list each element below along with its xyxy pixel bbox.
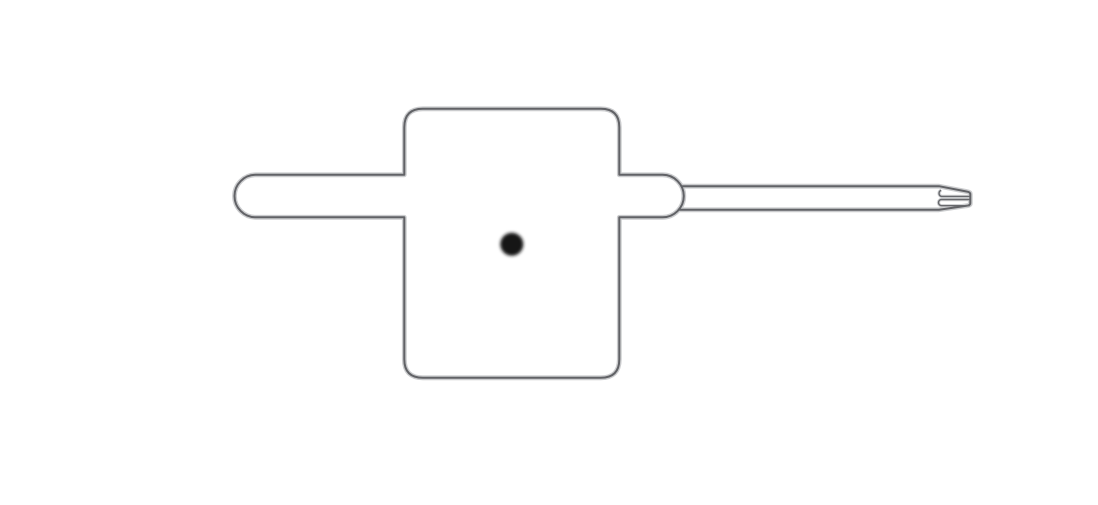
- blade shaft: dark core line: [679, 186, 971, 210]
- flute 1: dark core line: [939, 190, 970, 196]
- blade shaft: soft skirt pass: [679, 186, 971, 210]
- handle body + bar: dark core line: [235, 109, 684, 378]
- center dot (pivot hole): [500, 233, 523, 256]
- flute 1: soft skirt pass: [939, 190, 970, 196]
- flute 2: soft skirt pass: [939, 200, 970, 206]
- handle body + bar: soft skirt pass: [235, 109, 684, 378]
- flute 2: dark core line: [939, 200, 970, 206]
